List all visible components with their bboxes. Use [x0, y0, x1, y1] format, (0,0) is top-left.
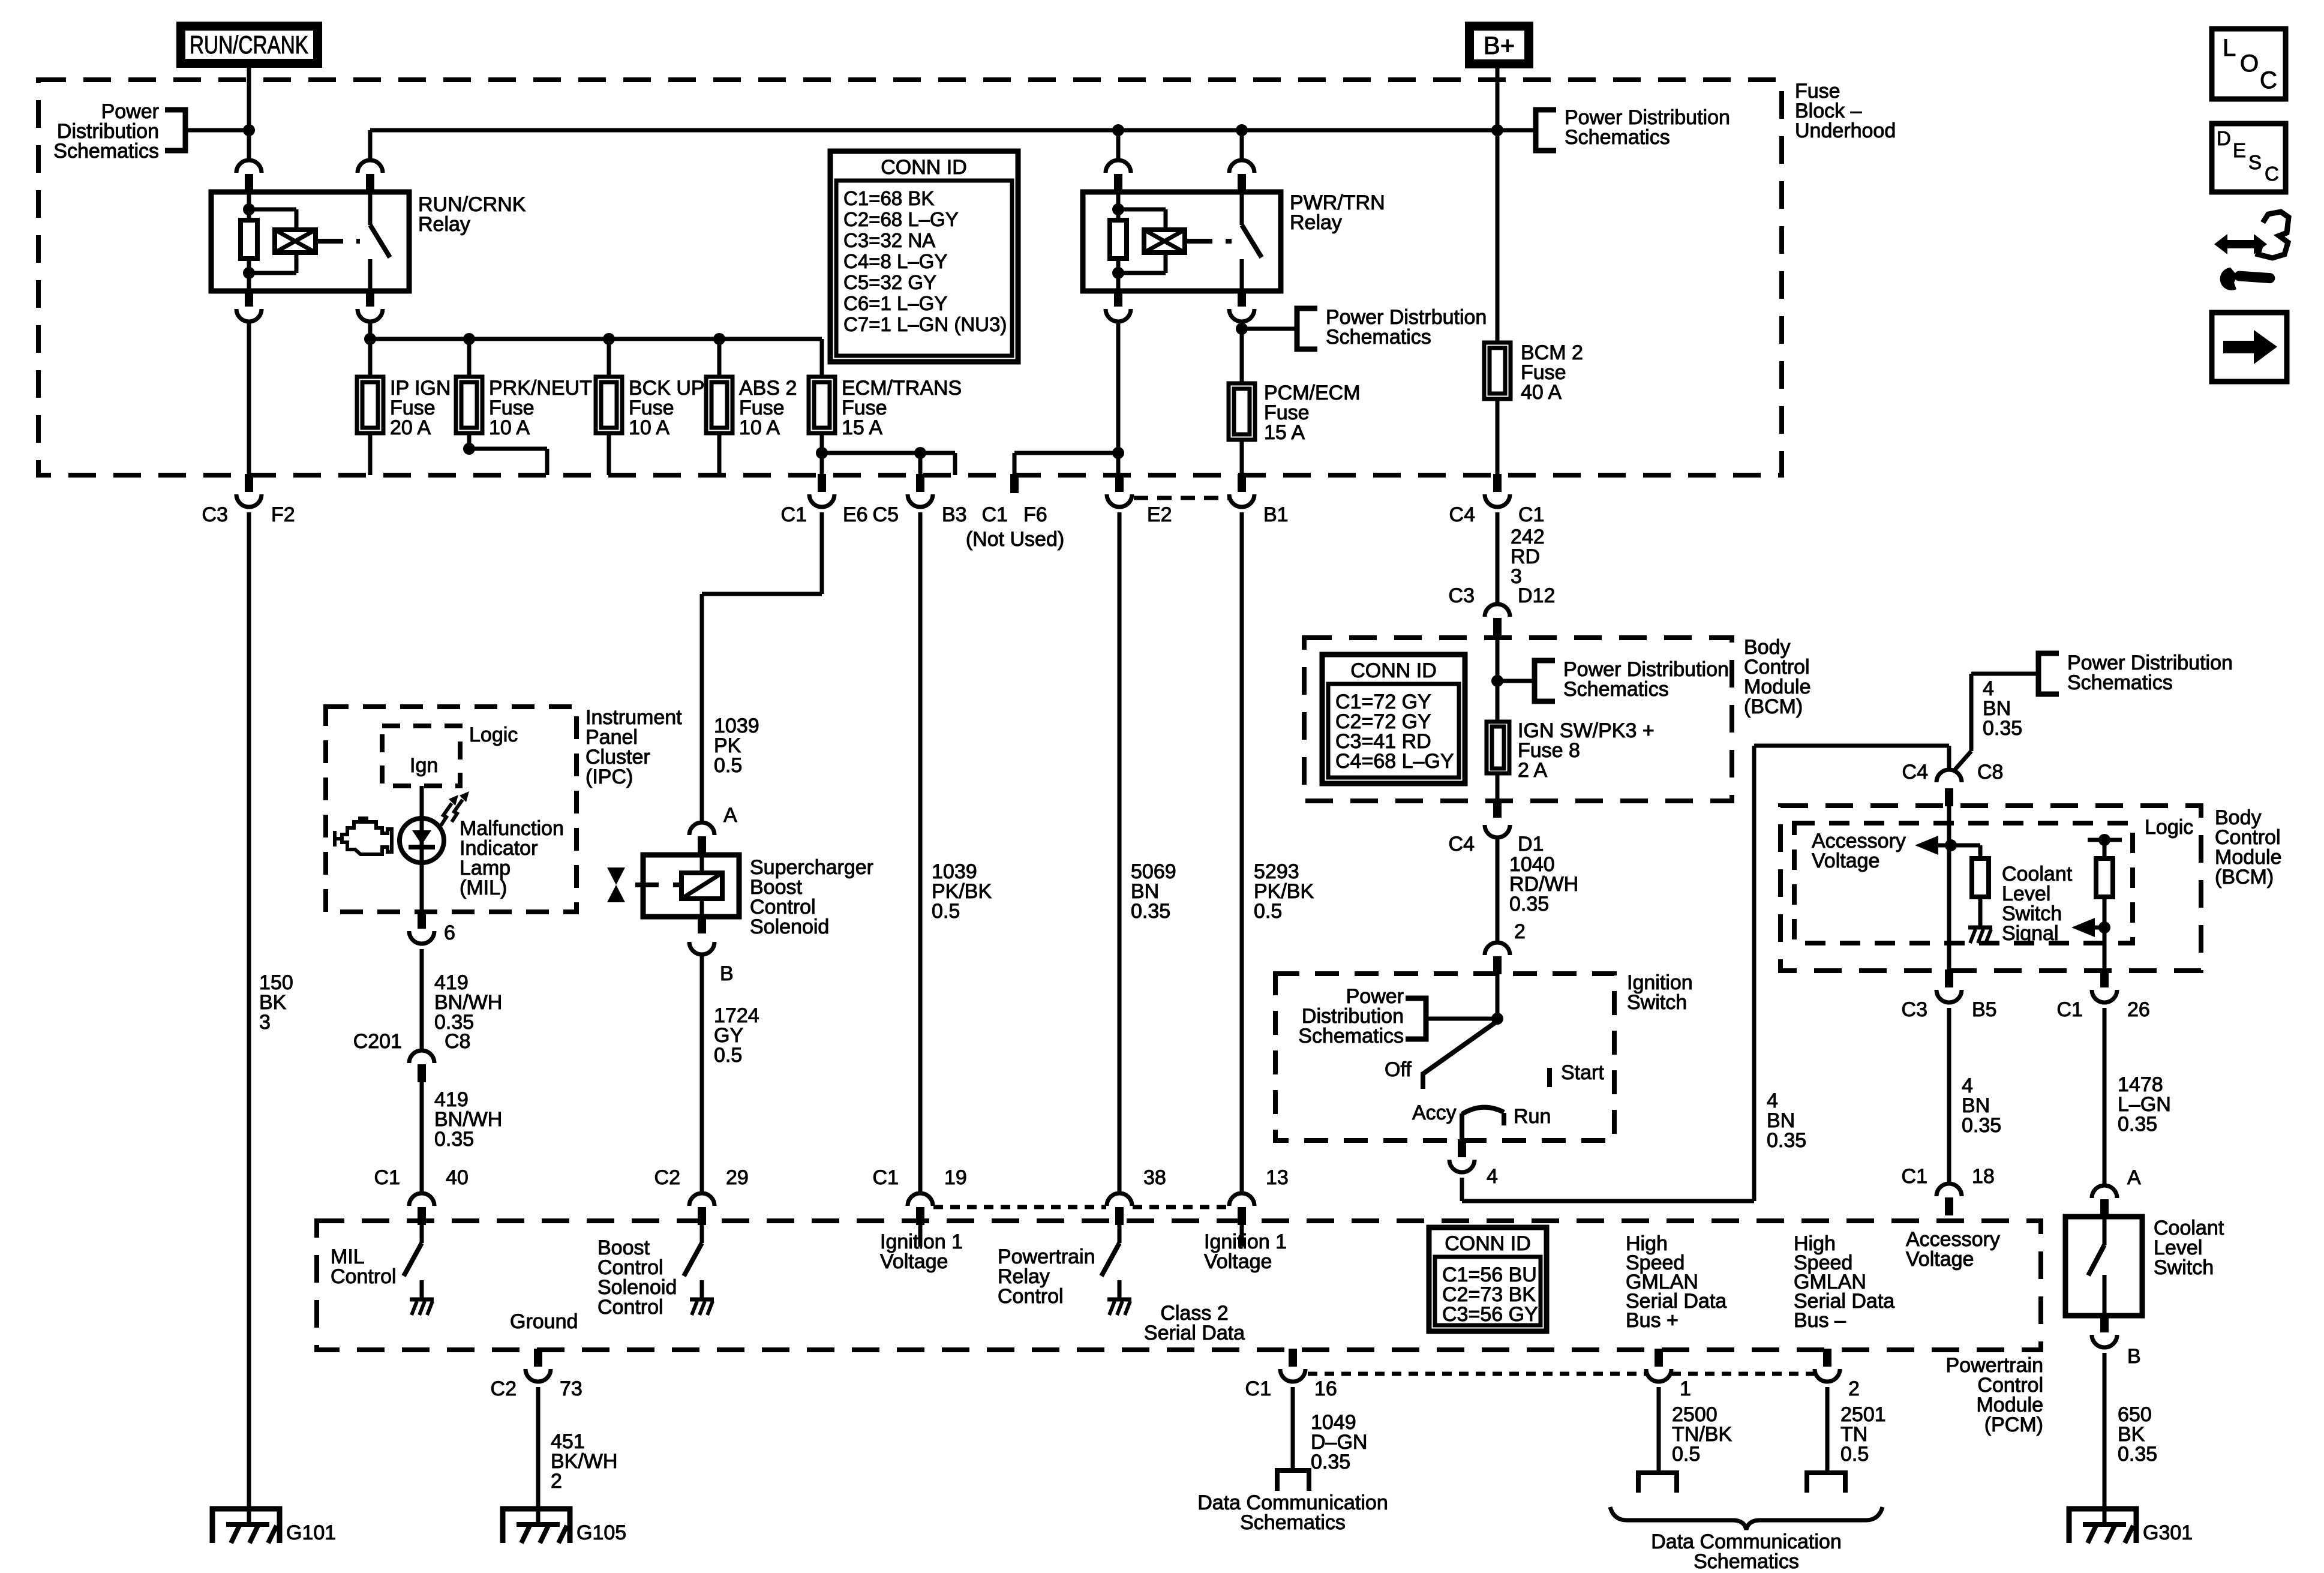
svg-text:Run: Run: [1514, 1105, 1551, 1128]
wire 2500 TN/BK: [1657, 1387, 1661, 1472]
power distribution schematics pointer (accessory): [2038, 652, 2233, 694]
svg-text:40 A: 40 A: [1521, 381, 1562, 404]
svg-text:D12: D12: [1518, 584, 1555, 607]
label 419 BN/WH 0.35 (upper): [434, 971, 502, 1034]
connector C1/16: [1245, 1349, 1337, 1400]
switch powertrain relay control + ground: [1101, 1243, 1131, 1315]
label Accy: [1412, 1101, 1457, 1124]
svg-text:Schematics: Schematics: [1240, 1511, 1346, 1534]
connector C1/18: [1902, 1165, 1995, 1215]
power distrbution schematics pointer (PWR/TRN): [1242, 306, 1487, 349]
svg-text:D: D: [2217, 127, 2231, 149]
wire 1478 L-GN: [2103, 1008, 2107, 1185]
junction dot bus/BCK UP: [603, 333, 615, 345]
label Malfunction Indicator Lamp (MIL): [460, 817, 564, 899]
svg-text:C4=8 L–GY: C4=8 L–GY: [843, 250, 947, 272]
connector C3/B5: [1902, 969, 1997, 1021]
connector C2/29: [654, 1166, 749, 1225]
wire junction to C5 drop: [822, 453, 955, 475]
label 5293 PK/BK 0.5: [1254, 860, 1314, 923]
connector C4/D1: [1449, 800, 1544, 855]
svg-text:18: 18: [1972, 1165, 1995, 1188]
svg-text:Relay: Relay: [418, 213, 470, 236]
label MIL Control: [331, 1245, 397, 1288]
junction dot RUN/CRANK node: [243, 124, 255, 136]
label 4 BN 0.35 (to PCM): [1962, 1074, 2001, 1137]
wire dashed E2-B1: [1134, 496, 1230, 500]
svg-text:CONN ID: CONN ID: [1350, 659, 1437, 682]
svg-text:Schematics: Schematics: [1694, 1550, 1799, 1573]
svg-text:0.35: 0.35: [1767, 1129, 1806, 1152]
fuse BCK UP 10A: [596, 377, 705, 439]
wire PDS to C4/C8: [1953, 674, 2038, 772]
wire B+ rail: [370, 128, 1536, 133]
svg-text:Off: Off: [1385, 1058, 1412, 1081]
svg-text:C8: C8: [445, 1030, 470, 1053]
svg-text:(BCM): (BCM): [2215, 866, 2274, 888]
wire PRK/NEUT drop: [467, 339, 472, 377]
svg-text:Schematics: Schematics: [1565, 126, 1670, 149]
svg-text:G101: G101: [286, 1521, 336, 1544]
wire PWRTRN coil to junction: [1116, 322, 1121, 475]
connector 2 (GMLAN-): [1815, 1349, 1860, 1400]
label Coolant Level Switch: [2154, 1217, 2224, 1279]
svg-text:Signal: Signal: [2002, 922, 2059, 945]
label Ignition 1 Voltage (19): [880, 1230, 963, 1273]
power distribution schematics pointer (left): [53, 100, 185, 163]
wire 2501 TN: [1825, 1387, 1830, 1472]
svg-text:0.35: 0.35: [2118, 1113, 2157, 1136]
label B (solenoid): [720, 962, 734, 985]
svg-text:Accy: Accy: [1412, 1101, 1457, 1124]
body control module dashed box: [1304, 638, 1732, 801]
svg-text:C1: C1: [374, 1166, 400, 1189]
label High Speed GMLAN Serial Data Bus +: [1626, 1232, 1727, 1332]
svg-text:0.5: 0.5: [1672, 1443, 1700, 1466]
label 451 BK/WH 2: [551, 1430, 617, 1493]
connector C1/26: [2057, 969, 2150, 1021]
junction dot bus/ABS 2: [713, 333, 725, 345]
svg-text:C3=32 NA: C3=32 NA: [843, 229, 935, 251]
svg-text:Voltage: Voltage: [1906, 1248, 1974, 1271]
wire junction to F6 stub: [1014, 453, 1118, 475]
label Data Communication Schematics (GMLAN): [1651, 1530, 1841, 1573]
wire RUN/CRANK flag to relay coil: [247, 68, 251, 160]
body control module 2 dashed box: [1780, 806, 2201, 971]
connector C1/F6 (not used): [966, 474, 1064, 551]
svg-text:C5: C5: [873, 503, 899, 526]
wire PCM/ECM fuse to border: [1240, 440, 1244, 475]
svg-text:40: 40: [446, 1166, 469, 1189]
fuse PCM/ECM 15A: [1229, 382, 1361, 444]
powertrain control module dashed box: [317, 1221, 2041, 1350]
wire dotted 19-38: [933, 1205, 1106, 1209]
label Fuse Block - Underhood: [1795, 80, 1896, 142]
svg-text:E2: E2: [1147, 503, 1172, 526]
power distribution schematics pointer (BCM): [1497, 658, 1729, 701]
label PWR/TRN Relay: [1290, 191, 1385, 234]
svg-text:C2: C2: [654, 1166, 680, 1189]
wire fuse bus: [370, 322, 822, 377]
connector A (solenoid): [689, 804, 737, 854]
svg-text:C1: C1: [1518, 503, 1544, 526]
svg-text:Logic: Logic: [2145, 816, 2193, 839]
fuse PRK/NEUT 10A: [456, 377, 592, 439]
junction dot bus/PRK NEUT: [463, 333, 475, 345]
svg-text:F6: F6: [1023, 503, 1047, 526]
fuse IGN SW/PK3 Fuse 8 2A: [1487, 719, 1655, 782]
svg-text:C4: C4: [1449, 833, 1475, 855]
wire C5 drop: [918, 453, 923, 475]
label Class 2 Serial Data: [1144, 1302, 1245, 1344]
arrow accessory voltage: [1915, 836, 1951, 855]
svg-text:29: 29: [726, 1166, 749, 1189]
label Body Control Module (BCM) right: [2215, 806, 2282, 888]
svg-text:CONN ID: CONN ID: [1445, 1232, 1531, 1255]
wire 1049 D-GN: [1291, 1387, 1295, 1468]
svg-text:C: C: [2265, 163, 2279, 185]
svg-text:C201: C201: [353, 1030, 402, 1053]
wire 5293 PK/BK: [1240, 512, 1244, 1193]
svg-text:2: 2: [1514, 920, 1526, 943]
wire 650 BK to G301: [2103, 1353, 2107, 1524]
icon next-page arrow box: [2212, 313, 2287, 382]
fuse ECM/TRANS 15A: [809, 377, 962, 439]
label 1049 D-GN 0.35: [1311, 1411, 1367, 1473]
connector C3/D12: [1449, 584, 1556, 636]
svg-text:Schematics: Schematics: [1563, 678, 1669, 701]
logic dashed box (IPC): [382, 726, 460, 786]
label 1040 RD/WH 0.35: [1509, 853, 1578, 915]
label 4 BN 0.35 (accessory feed): [1983, 677, 2022, 740]
svg-text:0.5: 0.5: [714, 754, 742, 777]
junction dot coil/F6: [1112, 447, 1124, 459]
svg-text:0.35: 0.35: [2118, 1443, 2157, 1466]
ignition switch blade to Off: [1423, 1021, 1497, 1089]
wire BCM2 fuse to border: [1496, 399, 1500, 475]
wire PWRTRN switch to fuse: [1240, 322, 1244, 383]
offpage bracket (class 2): [1277, 1470, 1309, 1491]
wire 242 RD: [1496, 512, 1500, 604]
wire fuse8 to BCM border: [1496, 773, 1500, 801]
svg-text:Bus –: Bus –: [1794, 1309, 1846, 1332]
wire E6 drop: [820, 453, 824, 475]
svg-text:C1: C1: [1902, 1165, 1927, 1188]
label 650 BK 0.35: [2118, 1403, 2157, 1466]
power distribution schematics pointer (near B+): [1536, 106, 1730, 151]
junction dot BCM feed: [1491, 675, 1503, 687]
wire 1040 RD/WH: [1496, 837, 1500, 942]
relay PWR/TRN: [1083, 128, 1281, 322]
label RUN/CRNK Relay: [418, 193, 526, 236]
fuse block - underhood dashed box: [38, 80, 1782, 475]
svg-text:15 A: 15 A: [842, 416, 882, 439]
connector C2/73: [491, 1349, 582, 1400]
svg-text:B: B: [720, 962, 734, 985]
svg-text:E: E: [2233, 139, 2246, 161]
junction dot ignition switch pivot: [1491, 1013, 1503, 1025]
label 2 (ignition switch pin): [1514, 920, 1526, 943]
wire pin4 run to BCM2: [1462, 746, 1949, 1201]
label Powertrain Relay Control: [998, 1245, 1095, 1308]
label Ground: [510, 1310, 578, 1333]
svg-text:O: O: [2240, 50, 2259, 77]
label Start + tick: [1550, 1061, 1604, 1087]
offpage bracket (GMLAN+): [1638, 1473, 1677, 1493]
conn id table (fuse block): [830, 151, 1018, 362]
wire BCK UP drop: [607, 339, 611, 377]
junction dot rail/PWRTRN coil: [1112, 124, 1124, 136]
junction dot C5 drop: [914, 447, 926, 459]
svg-text:0.35: 0.35: [1983, 717, 2022, 740]
svg-text:0.5: 0.5: [1254, 900, 1282, 923]
wire ABS 2 drop: [717, 339, 722, 377]
svg-text:10 A: 10 A: [629, 416, 669, 439]
svg-text:10 A: 10 A: [739, 416, 780, 439]
wire BCK UP fuse to border: [607, 433, 611, 475]
svg-text:Bus +: Bus +: [1626, 1309, 1679, 1332]
label Ignition Switch: [1627, 971, 1693, 1014]
wire ABS 2 fuse to border: [717, 433, 722, 475]
svg-text:E6: E6: [843, 503, 868, 526]
ground G101: [212, 1509, 336, 1544]
svg-text:20 A: 20 A: [390, 416, 431, 439]
svg-text:0.35: 0.35: [1311, 1451, 1350, 1473]
connector C201/C8: [353, 1030, 471, 1082]
power distribution schematics pointer (ign sw): [1298, 985, 1497, 1047]
wire C8 pin to accessory node: [1947, 806, 1951, 971]
label Run: [1514, 1105, 1551, 1128]
label 1039 PK/BK 0.5: [932, 860, 992, 923]
label High Speed GMLAN Serial Data Bus -: [1794, 1232, 1894, 1332]
svg-text:B+: B+: [1484, 31, 1515, 59]
svg-text:C4: C4: [1902, 761, 1928, 784]
ground G105: [503, 1509, 626, 1544]
icon jump arrows + wrench: [2214, 212, 2289, 290]
wire D12 pin to BCM interior: [1496, 635, 1500, 722]
svg-text:C4=68 L–GY: C4=68 L–GY: [1335, 750, 1454, 773]
coolant level switch box: [2065, 1217, 2142, 1316]
label 5069 BN 0.35: [1131, 860, 1176, 923]
wire bracket to node: [185, 128, 249, 133]
svg-text:B1: B1: [1263, 503, 1289, 526]
svg-text:L: L: [2223, 35, 2236, 61]
label Accessory Voltage (BCM2): [1812, 830, 1906, 872]
switch MIL control + ground: [404, 1243, 434, 1315]
svg-text:(Not Used): (Not Used): [966, 528, 1064, 551]
mil lightning arrows: [441, 791, 469, 825]
wire pin2 into ignition switch: [1496, 974, 1500, 1019]
svg-text:F2: F2: [271, 503, 295, 526]
resistor coolant pullup R1: [1951, 845, 1989, 926]
svg-text:Schematics: Schematics: [53, 140, 159, 163]
svg-text:B5: B5: [1972, 998, 1997, 1021]
label Logic (BCM2): [2145, 816, 2193, 839]
svg-text:C1: C1: [2057, 998, 2083, 1021]
svg-text:C7=1 L–GN (NU3): C7=1 L–GN (NU3): [843, 313, 1007, 335]
brace data communication: [1610, 1507, 1882, 1530]
svg-text:0.35: 0.35: [1962, 1114, 2001, 1137]
connector 2 (ignition switch): [1485, 942, 1510, 974]
node B+ voltage flag: [1465, 22, 1533, 68]
wire PRK/NEUT fuse jog: [463, 433, 547, 475]
connector C1/19: [873, 1166, 967, 1225]
svg-text:(PCM): (PCM): [1984, 1413, 2043, 1436]
label 2501 TN 0.5: [1840, 1403, 1886, 1466]
label Supercharger Boost Control Solenoid: [750, 856, 873, 938]
label Off: [1385, 1058, 1412, 1081]
connector 4 (ignition switch out): [1449, 1139, 1498, 1188]
connector 6 (IPC out): [409, 911, 455, 944]
connector C4/C8: [1902, 761, 2004, 806]
label Data Communication Schematics (class2): [1197, 1491, 1388, 1534]
svg-text:26: 26: [2127, 998, 2150, 1021]
svg-text:C8: C8: [1977, 761, 2003, 784]
resistor logic R2 + bar: [2088, 834, 2122, 971]
label Ign: [410, 754, 438, 777]
svg-text:38: 38: [1143, 1166, 1166, 1189]
logic dashed box (BCM2): [1794, 823, 2133, 943]
svg-text:C: C: [2260, 67, 2277, 94]
svg-text:C3: C3: [1449, 584, 1475, 607]
label Logic (IPC): [469, 724, 518, 746]
relay RUN/CRNK: [211, 128, 409, 322]
svg-text:4: 4: [1487, 1165, 1498, 1188]
label 1478 L-GN 0.35: [2118, 1073, 2171, 1136]
svg-text:G301: G301: [2143, 1521, 2193, 1544]
svg-text:0.35: 0.35: [1509, 893, 1549, 915]
wire C2/29 pin into PCM: [700, 1225, 704, 1243]
svg-text:B: B: [2127, 1345, 2141, 1368]
connector 38: [1107, 1166, 1166, 1225]
svg-text:16: 16: [1314, 1377, 1337, 1400]
wire B+ flag drop: [1496, 68, 1500, 343]
wire E6 to solenoid jog: [702, 512, 822, 822]
icon LOC box: [2212, 29, 2286, 99]
svg-text:2: 2: [551, 1470, 562, 1493]
label Accessory Voltage (PCM): [1906, 1228, 2000, 1271]
svg-text:Logic: Logic: [469, 724, 518, 746]
label Body Control Module (BCM): [1744, 636, 1811, 718]
wire 4 BN to PCM: [1947, 1008, 1951, 1183]
svg-text:(BCM): (BCM): [1744, 695, 1803, 718]
label 150 BK 3: [259, 971, 293, 1034]
wire 13 pin into PCM: [1240, 1225, 1244, 1247]
label 4 BN 0.35 (pin4 run): [1767, 1089, 1806, 1152]
svg-text:Switch: Switch: [1627, 991, 1687, 1014]
svg-text:0.5: 0.5: [714, 1044, 742, 1067]
svg-text:0.35: 0.35: [434, 1128, 474, 1151]
svg-text:Ground: Ground: [510, 1310, 578, 1333]
svg-text:10 A: 10 A: [489, 416, 530, 439]
connector B (coolant): [2092, 1314, 2141, 1368]
svg-text:A: A: [723, 804, 737, 827]
svg-text:G105: G105: [577, 1521, 626, 1544]
lamp MIL LED: [400, 818, 444, 863]
junction dot rail/B+: [1491, 124, 1503, 136]
offpage bracket (GMLAN-): [1807, 1473, 1845, 1493]
label 2500 TN/BK 0.5: [1672, 1403, 1732, 1466]
svg-text:3: 3: [259, 1011, 271, 1034]
svg-text:RUN/CRANK: RUN/CRANK: [190, 31, 308, 59]
svg-text:13: 13: [1266, 1166, 1289, 1189]
svg-text:Voltage: Voltage: [1204, 1250, 1272, 1273]
junction dot switch signal: [2098, 921, 2110, 933]
ignition switch Accy-Run arc: [1462, 1107, 1504, 1140]
svg-text:(IPC): (IPC): [585, 766, 633, 788]
svg-text:Relay: Relay: [1290, 211, 1342, 234]
svg-text:C4: C4: [1449, 503, 1475, 526]
label Powertrain Control Module (PCM): [1945, 1354, 2043, 1436]
wire RUN/CRNK coil low side to C3/F2: [247, 322, 251, 475]
svg-text:C1: C1: [781, 503, 807, 526]
wire ECM/TRANS fuse to junction: [820, 433, 824, 453]
ignition switch dashed box: [1275, 974, 1614, 1140]
svg-text:1: 1: [1680, 1377, 1691, 1400]
wire 1039 PK/BK: [918, 512, 923, 1193]
svg-text:Schematics: Schematics: [1298, 1025, 1404, 1047]
instrument panel cluster dashed box: [326, 707, 577, 912]
ground G301: [2069, 1509, 2193, 1544]
connector 13: [1229, 1166, 1289, 1225]
wire dotted class2 to bus+: [1308, 1372, 1646, 1376]
wire C1/40 pin into PCM: [420, 1225, 424, 1243]
svg-text:C3: C3: [1902, 998, 1927, 1021]
wire 5069 BN: [1118, 512, 1122, 1193]
svg-text:C3=56 GY: C3=56 GY: [1442, 1303, 1538, 1326]
connector C3/E2: [1107, 474, 1172, 526]
wire MIL to IPC border: [420, 861, 424, 912]
conn id table (PCM): [1429, 1227, 1547, 1331]
svg-text:0.5: 0.5: [932, 900, 960, 923]
solenoid supercharger boost control: [607, 853, 739, 954]
svg-text:Start: Start: [1561, 1061, 1604, 1084]
svg-text:C1=68 BK: C1=68 BK: [843, 187, 934, 209]
wire dotted 38-13: [1133, 1205, 1229, 1209]
fuse BCM 2 40A: [1484, 341, 1583, 404]
svg-text:73: 73: [560, 1377, 582, 1400]
junction dot switch/PDS: [1236, 323, 1248, 335]
connector C1/40: [374, 1166, 469, 1225]
svg-text:Control: Control: [597, 1296, 663, 1319]
svg-text:Voltage: Voltage: [1812, 849, 1879, 872]
connector 1 (GMLAN+): [1646, 1349, 1691, 1400]
wire 419 BN/WH lower: [420, 1081, 424, 1193]
label 1039 PK 0.5: [714, 715, 759, 777]
connector C1/E6: [781, 474, 868, 526]
wire 38 pin into PCM: [1118, 1225, 1122, 1243]
ground (BCM2 internal): [1968, 927, 1992, 943]
wire 1724 GY: [700, 953, 704, 1193]
connector A (coolant): [2092, 1166, 2141, 1217]
svg-text:2: 2: [1848, 1377, 1860, 1400]
svg-text:Serial Data: Serial Data: [1144, 1322, 1245, 1344]
label Boost Control Solenoid Control: [597, 1236, 677, 1319]
svg-text:Schematics: Schematics: [1326, 326, 1431, 349]
node RUN/CRANK voltage flag: [176, 22, 322, 68]
svg-text:C1: C1: [982, 503, 1008, 526]
svg-text:2 A: 2 A: [1518, 759, 1547, 782]
label 1724 GY 0.5: [714, 1004, 759, 1067]
junction dot bus/IP IGN: [364, 333, 376, 345]
wire 451 BK/WH to G105: [536, 1387, 541, 1524]
label 242 RD 3: [1511, 526, 1545, 588]
label Coolant Level Switch Signal: [2002, 863, 2073, 945]
icon DESC box: [2212, 124, 2286, 192]
svg-text:Control: Control: [331, 1265, 397, 1288]
svg-text:6: 6: [444, 921, 455, 944]
svg-text:A: A: [2127, 1166, 2141, 1189]
